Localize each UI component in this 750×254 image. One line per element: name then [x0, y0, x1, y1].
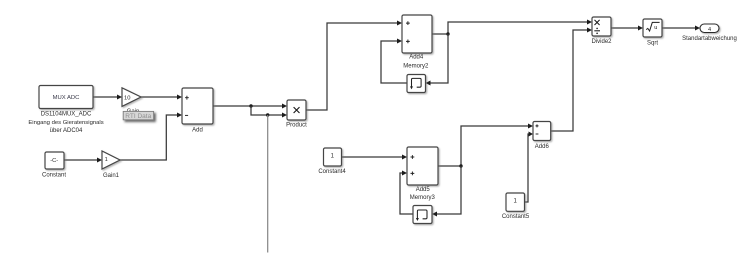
- node junction at 267.7,115: [266, 113, 269, 116]
- wire Memory2 output to Add4 input 2: [381, 41, 407, 83]
- node junction at 461,166: [459, 164, 462, 167]
- wire branch down to Product input 2: [251, 106, 283, 115]
- wire Product to Add4 input 1: [306, 23, 398, 110]
- svg-text:über ADC04: über ADC04: [50, 128, 83, 134]
- gain Gain1: [102, 151, 120, 169]
- svg-text:RTI Data: RTI Data: [125, 113, 151, 120]
- constant Constant4: [324, 148, 342, 166]
- sqrt Sqrt: [643, 19, 662, 37]
- svg-text:Constant4: Constant4: [318, 169, 346, 175]
- wire Sqrt to outport: [662, 27, 696, 29]
- svg-text:Sqrt: Sqrt: [647, 40, 658, 46]
- wire Add5 output to Add6 input 1: [438, 126, 529, 166]
- adder Add6: [533, 122, 551, 141]
- svg-text:DS1104MUX_ADC: DS1104MUX_ADC: [41, 112, 92, 118]
- memory Memory2: [407, 75, 426, 93]
- svg-text:10: 10: [124, 95, 130, 101]
- node junction at 251,106: [249, 104, 252, 107]
- svg-text:Constant: Constant: [42, 173, 66, 179]
- multiplier Product: [287, 100, 306, 120]
- svg-text:1: 1: [105, 157, 108, 163]
- wire Gain1 to Add minus input: [120, 115, 179, 160]
- svg-text:Divide2: Divide2: [591, 39, 612, 45]
- wire Memory3 output to Add5 input 2: [400, 173, 413, 214]
- svg-text:Memory2: Memory2: [403, 63, 429, 69]
- badge RTI Data: [123, 111, 153, 120]
- wire Constant4 to Add5 input 1: [342, 156, 404, 158]
- svg-text:Standartabweichung: Standartabweichung: [682, 36, 737, 42]
- constant Constant5: [506, 193, 525, 211]
- wire Add to Product input 1: [213, 105, 283, 107]
- svg-text:Constant5: Constant5: [502, 214, 530, 220]
- node junction at 448,34: [446, 32, 449, 35]
- svg-text:u: u: [654, 25, 657, 31]
- constant Constant: [45, 152, 64, 169]
- wire Divide2 to Sqrt: [611, 27, 639, 29]
- wire Constant5 to Add6 input 2: [525, 134, 530, 202]
- wire Gain to Add plus input: [141, 96, 178, 98]
- wire Add4 output to Divide2 input 1: [432, 22, 588, 34]
- wire MUX ADC to Gain: [93, 96, 118, 98]
- outport 4 Standartabweichung: [700, 24, 719, 33]
- wire Add6 output to Divide2 input 2: [551, 30, 588, 131]
- gain Gain: [122, 88, 141, 107]
- svg-text:Add6: Add6: [535, 144, 550, 150]
- wire Constant to Gain1: [64, 159, 98, 161]
- svg-text:-C-: -C-: [50, 158, 58, 164]
- svg-text:Add5: Add5: [416, 187, 431, 193]
- wire Add4 output down to Memory2 input: [430, 34, 448, 83]
- svg-text:Product: Product: [286, 123, 307, 129]
- wire Add5 output down to Memory3 input: [436, 166, 461, 214]
- wire down from junction off bottom: [267, 115, 269, 253]
- adder Add4: [402, 15, 432, 53]
- svg-text:4: 4: [708, 27, 711, 33]
- svg-text:Gain1: Gain1: [103, 173, 120, 179]
- adder Add5: [407, 147, 438, 185]
- svg-text:MUX ADC: MUX ADC: [53, 95, 81, 101]
- svg-text:Add: Add: [192, 128, 203, 134]
- memory Memory3: [413, 206, 432, 224]
- adder Add: [182, 88, 213, 124]
- svg-text:Memory3: Memory3: [410, 195, 436, 201]
- svg-text:Eingang des Gieratensignals: Eingang des Gieratensignals: [28, 120, 103, 126]
- block MUX ADC DS1104MUX_ADC: [39, 86, 93, 109]
- divider Divide2: [592, 17, 611, 36]
- svg-text:Add4: Add4: [409, 54, 424, 60]
